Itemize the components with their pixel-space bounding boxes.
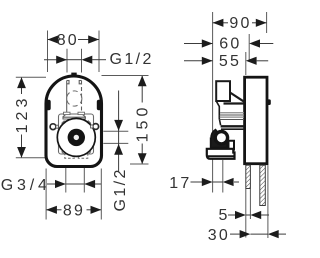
svg-text:150: 150 (134, 104, 151, 143)
ear right (91, 124, 99, 130)
bracket (207, 149, 235, 159)
ext bottom 123 (16, 157, 61, 159)
ext 89 left (45, 169, 47, 220)
ext G3/4 left (65, 168, 67, 193)
handle block (216, 81, 230, 101)
plate corner notches (62, 121, 92, 155)
svg-text:55: 55 (219, 53, 241, 70)
dim G1/2 top (44, 51, 154, 68)
apex tick (71, 73, 76, 78)
dim 90 (213, 12, 267, 33)
dim 30 (208, 227, 286, 244)
svg-text:5: 5 (219, 207, 228, 224)
dim G1/2 side (112, 91, 129, 212)
dim 55 (184, 52, 268, 75)
rib lines (220, 113, 244, 118)
bottom pipe hatched walls (246, 165, 268, 238)
svg-text:G3/4: G3/4 (1, 177, 51, 194)
plate feet (65, 154, 75, 158)
dim 123 (left) (14, 77, 61, 158)
svg-text:17: 17 (169, 175, 191, 192)
side port ring (215, 132, 227, 144)
svg-text:30: 30 (208, 227, 230, 244)
ext line G1/2 top left (66, 49, 68, 73)
dim G3/4 (1, 168, 101, 194)
port pedestal (211, 140, 234, 150)
spindle donut (68, 129, 85, 146)
wall plane line (212, 12, 214, 193)
side tab left (46, 100, 51, 110)
ext line 80 left (47, 31, 49, 73)
pipe flange (63, 114, 87, 120)
oval body (46, 76, 102, 167)
side port ext lines (103, 130, 128, 132)
dim 17 (169, 160, 239, 193)
ext top 150 (from oval) (102, 75, 149, 77)
chamfer collar (230, 93, 245, 103)
svg-text:123: 123 (14, 95, 31, 134)
ear left (50, 124, 58, 130)
pipe dashed circle (67, 91, 82, 106)
dim 150 (right) (102, 76, 152, 165)
box right notch (267, 99, 271, 105)
svg-text:90: 90 (229, 15, 251, 32)
svg-text:89: 89 (63, 202, 85, 219)
dim 5 (219, 207, 270, 224)
dim 60 (184, 34, 273, 62)
svg-text:G1/2: G1/2 (110, 51, 154, 68)
flange bars (221, 125, 244, 127)
box (in-wall housing) (245, 77, 267, 164)
svg-text:G1/2: G1/2 (112, 167, 129, 211)
ext 89 right (100, 169, 102, 220)
dim 80 (48, 32, 100, 49)
svg-text:80: 80 (57, 32, 79, 49)
plate top tabs (64, 112, 71, 114)
svg-text:60: 60 (219, 36, 241, 53)
dim 89 (46, 169, 101, 220)
ext G3/4 right (83, 168, 85, 193)
top pipe (67, 81, 82, 114)
ext line G1/2 top right (81, 49, 83, 73)
ext bottom 150 (130, 163, 149, 165)
mounting plate (59, 114, 94, 154)
ext line 80 right (98, 31, 100, 73)
side tab right (97, 100, 102, 110)
escutcheon circle (57, 118, 95, 156)
ext top 123 (16, 76, 46, 78)
